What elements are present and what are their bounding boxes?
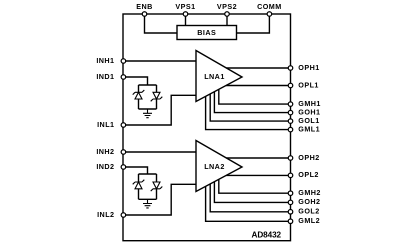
pin IND2 xyxy=(121,165,126,170)
wire IND2 xyxy=(123,167,147,174)
diode D2b xyxy=(151,182,163,191)
op-amp LNA1 xyxy=(196,51,242,102)
svg-text:VPS2: VPS2 xyxy=(217,2,237,11)
svg-text:GML2: GML2 xyxy=(298,216,320,225)
pin VPS2 xyxy=(225,12,230,17)
pin GML1 xyxy=(288,127,293,132)
diode D2a xyxy=(133,180,145,189)
clamp D1 rails xyxy=(139,85,157,109)
wire ENB to BIAS xyxy=(145,14,178,33)
svg-text:LNA1: LNA1 xyxy=(204,72,225,81)
pin GOL2 xyxy=(288,210,293,215)
diode D1a xyxy=(133,90,145,99)
pin ENB xyxy=(142,12,147,17)
wire COMM to BIAS xyxy=(237,14,270,33)
wire IND1 xyxy=(123,77,147,85)
wire OPH1 xyxy=(226,67,290,69)
svg-text:INH2: INH2 xyxy=(96,147,114,156)
svg-text:GOH2: GOH2 xyxy=(298,197,320,206)
svg-text:INL2: INL2 xyxy=(97,210,114,219)
wire INL1 xyxy=(123,95,196,125)
svg-text:IND2: IND2 xyxy=(96,162,114,171)
pin GML2 xyxy=(288,219,293,224)
svg-text:OPH2: OPH2 xyxy=(298,153,319,162)
wire GOH1 xyxy=(214,92,290,113)
svg-text:VPS1: VPS1 xyxy=(175,2,195,11)
svg-text:GOL2: GOL2 xyxy=(298,207,319,216)
pin GMH2 xyxy=(288,191,293,196)
pin GOH1 xyxy=(288,110,293,115)
pin INH2 xyxy=(121,150,126,155)
ground GND2 xyxy=(143,199,152,208)
pin VPS1 xyxy=(183,12,188,17)
svg-text:OPL1: OPL1 xyxy=(298,80,319,89)
wire GMH1 xyxy=(219,89,291,104)
svg-text:AD8432: AD8432 xyxy=(252,231,282,240)
wire VPS2 to BIAS xyxy=(226,14,228,26)
pin OPH1 xyxy=(288,66,293,71)
op-amp LNA2 xyxy=(196,141,242,192)
svg-text:GMH2: GMH2 xyxy=(298,188,321,197)
wire GML1 xyxy=(206,96,291,129)
svg-text:GML1: GML1 xyxy=(298,124,320,133)
svg-text:INH1: INH1 xyxy=(96,56,114,65)
pin INL2 xyxy=(121,213,126,218)
pin GOL1 xyxy=(288,119,293,124)
wire OPH2 xyxy=(226,157,290,159)
pin GOH2 xyxy=(288,200,293,205)
wire GMH2 xyxy=(219,179,291,193)
pin INH1 xyxy=(121,59,126,64)
ground GND1 xyxy=(143,109,152,118)
wire OPL1 xyxy=(226,85,291,87)
svg-text:COMM: COMM xyxy=(257,2,282,11)
clamp D2 rails xyxy=(139,174,157,199)
pin COMM xyxy=(267,12,272,17)
wire INH1 xyxy=(123,60,196,62)
svg-text:IND1: IND1 xyxy=(96,72,114,81)
svg-text:OPL2: OPL2 xyxy=(298,170,319,179)
wire VPS1 to BIAS xyxy=(185,14,187,26)
wire INL2 xyxy=(123,184,196,215)
svg-text:BIAS: BIAS xyxy=(197,28,216,37)
block BIAS xyxy=(177,26,237,40)
wire GML2 xyxy=(206,186,291,221)
svg-text:ENB: ENB xyxy=(136,2,153,11)
svg-text:LNA2: LNA2 xyxy=(204,162,225,171)
wire OPL2 xyxy=(226,174,290,176)
svg-text:OPH1: OPH1 xyxy=(298,63,319,72)
pin circles xyxy=(121,12,293,224)
pin INL1 xyxy=(121,123,126,128)
pin OPH2 xyxy=(288,156,293,161)
diode D1b xyxy=(151,92,163,101)
wire INH2 xyxy=(123,151,196,153)
wire GOL1 xyxy=(210,94,290,121)
pin OPL2 xyxy=(288,173,293,178)
svg-text:INL1: INL1 xyxy=(97,120,114,129)
wire GOL2 xyxy=(210,184,290,212)
wire GOH2 xyxy=(214,182,290,203)
pin OPL1 xyxy=(288,83,293,88)
pin GMH1 xyxy=(288,102,293,107)
pin IND1 xyxy=(121,75,126,80)
chip outline xyxy=(123,14,291,241)
